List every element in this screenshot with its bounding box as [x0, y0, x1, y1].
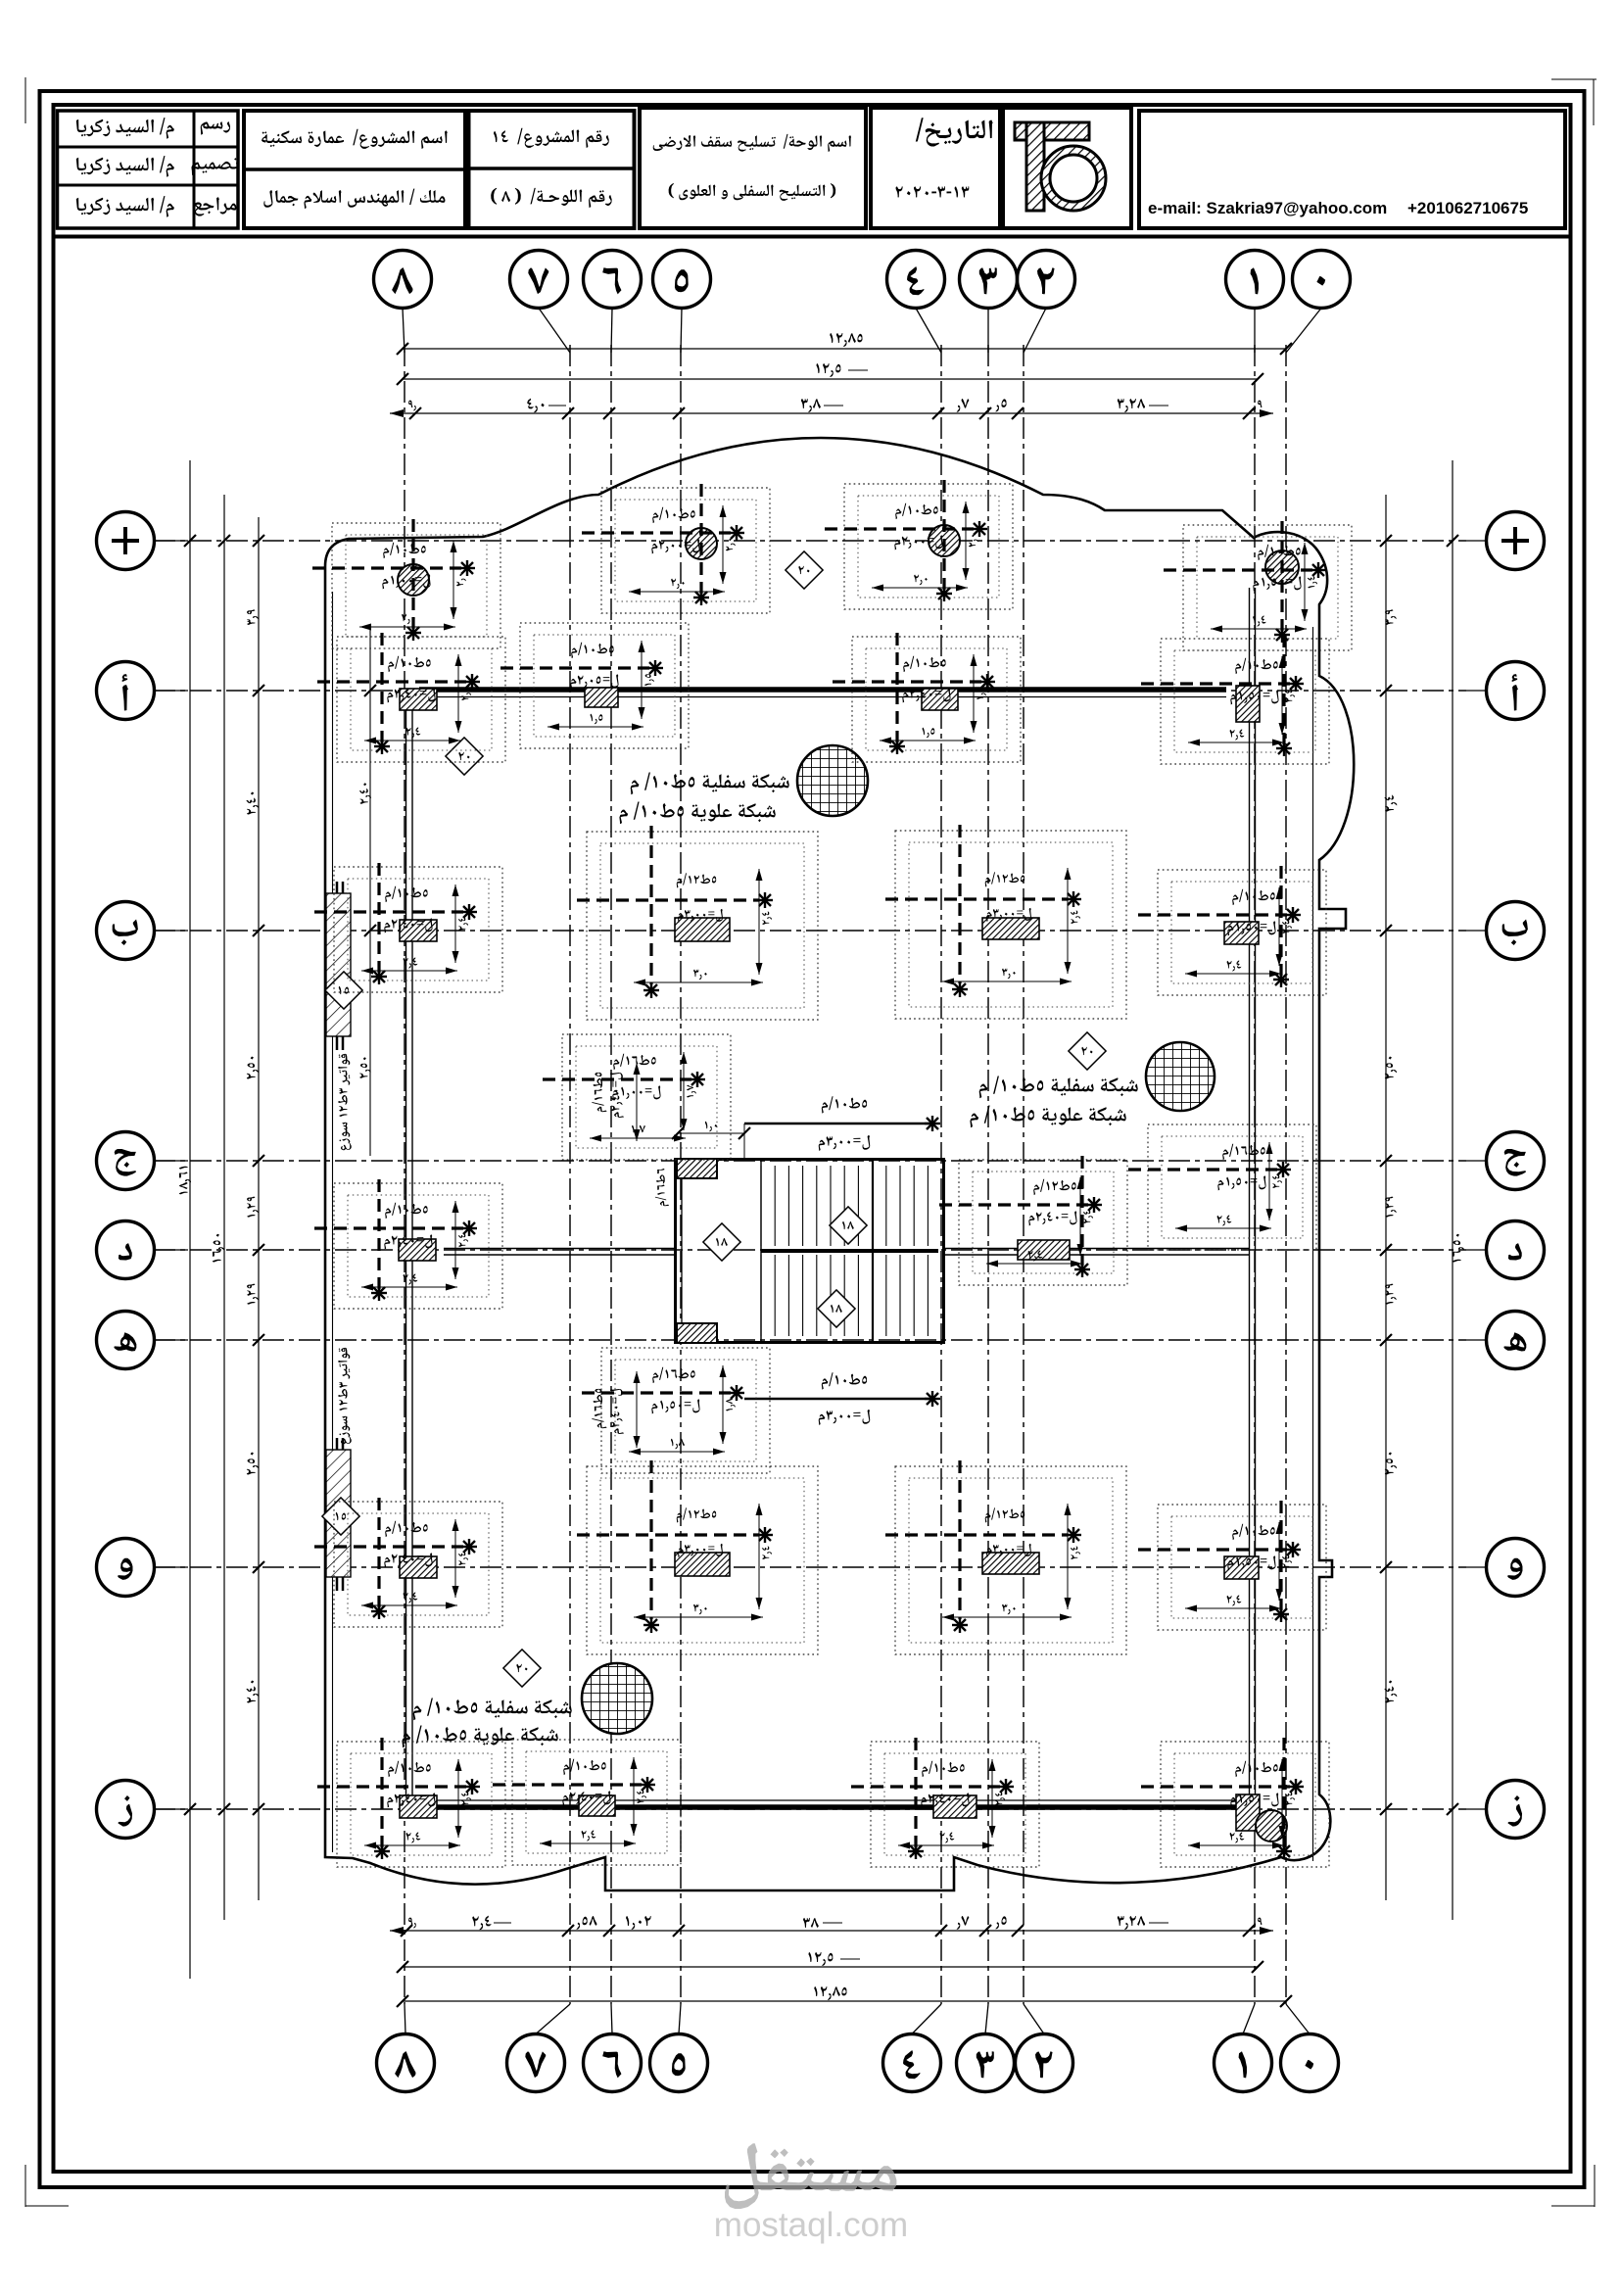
grid bubble ز right — [1466, 1781, 1545, 1839]
grid bubble ١ bottom — [1215, 2004, 1272, 2092]
wall on grid 8 (double line) — [405, 693, 407, 1807]
column F-8 — [400, 1556, 437, 1578]
grid bubble و right — [1466, 1539, 1545, 1597]
grid bubble ٠ bottom — [1281, 2004, 1339, 2092]
vertical grid centerline ٣ — [987, 345, 989, 2004]
grid bubble ٧ top — [510, 251, 571, 354]
grid bubble أ left — [97, 662, 189, 720]
mesh note bottom — [413, 1698, 572, 1721]
annotation cluster B interior left — [577, 826, 818, 1020]
vertical grid centerline ٥ — [680, 345, 682, 2004]
grid bubble ٣ top — [960, 251, 1018, 354]
annotation cluster +/6 — [582, 484, 770, 613]
annotation cluster A/6 — [500, 623, 689, 748]
title block: project number cell — [469, 111, 635, 228]
round column at + grid x6 — [686, 528, 717, 559]
svg-text:e-mail: Szakria97@yahoo.com: e-mail: Szakria97@yahoo.com — [1148, 199, 1387, 217]
grid bubble ب left — [97, 902, 189, 960]
building outline inner line left — [332, 592, 334, 1852]
grid bubble ٥ top — [653, 251, 711, 354]
horizontal grid centerline و — [154, 1566, 1466, 1568]
bottom overall dimension 12.5 — [397, 1952, 1263, 1973]
column Z-6/7 — [579, 1795, 615, 1816]
grid bubble ب right — [1466, 902, 1545, 960]
annotation cluster Z/1 — [1141, 1738, 1329, 1867]
grid bubble ٧ bottom — [507, 2004, 571, 2092]
stair wall rebar note — [655, 1169, 669, 1206]
corner mark top-right — [1551, 78, 1596, 80]
grid bubble أ right — [1466, 662, 1545, 720]
round column at + grid x4 — [929, 525, 960, 556]
title block: contact cell — [1139, 111, 1565, 228]
annotation cluster D right — [939, 1156, 1127, 1285]
corner mark top-left — [24, 77, 26, 123]
stair column bottom-left — [677, 1323, 717, 1343]
column F-1 — [1224, 1556, 1259, 1579]
annotation cluster B/1 — [1138, 866, 1326, 995]
vertical grid centerline ١ — [1254, 345, 1256, 2004]
vertical grid centerline ٨ — [404, 345, 405, 2004]
annotation cluster +/1 — [1164, 521, 1352, 650]
grid bubble د right — [1466, 1221, 1545, 1279]
annotation cluster F interior right — [885, 1460, 1126, 1654]
vertical grid centerline ٢ — [1023, 345, 1024, 2004]
horizontal grid centerline ب — [154, 930, 1466, 932]
annotation cluster below stair left — [582, 1348, 770, 1473]
column A-8 — [400, 689, 437, 710]
title block: date cell — [871, 108, 1000, 228]
grid bubble ه left — [97, 1312, 189, 1369]
grid bubble ٠ top — [1286, 251, 1351, 354]
annotation cluster +/8 — [312, 519, 500, 648]
diamond mark 15 upper — [325, 972, 362, 1009]
annotation cluster B interior right — [885, 825, 1126, 1019]
left overall dimension 18.61 — [179, 460, 196, 1979]
stair mid landing beam — [761, 1249, 938, 1253]
annotation cluster Z/8 — [317, 1738, 505, 1867]
mesh note top — [631, 773, 789, 795]
grid bubble ٨ top — [374, 251, 432, 354]
hatched wall band upper-left — [326, 893, 351, 1036]
grid bubble ز left — [97, 1781, 189, 1839]
column D-8 — [399, 1239, 436, 1261]
annotation cluster A/1 — [1141, 635, 1329, 764]
top overall dimension 12.85 — [397, 333, 1292, 355]
column B interior left — [675, 918, 730, 941]
column D interior right — [1018, 1240, 1070, 1260]
annotation cluster A/8 — [317, 633, 505, 762]
column B-1 — [1224, 922, 1259, 944]
round column bottom-right corner — [1256, 1810, 1287, 1842]
annotation cluster D/1 — [1128, 1124, 1316, 1250]
hatched opening circle right — [1146, 1042, 1215, 1111]
grid bubble ١ top — [1226, 251, 1284, 354]
column A-6/7 — [585, 688, 618, 707]
grid bubble ٨ bottom — [377, 2004, 435, 2092]
stair dimension above — [744, 1123, 935, 1125]
horizontal grid centerline + — [154, 540, 1466, 542]
annotation cluster above stair left — [543, 1034, 731, 1160]
grid bubble ٤ top — [887, 251, 945, 354]
diamond mark 18 — [830, 1207, 867, 1244]
annotation cluster B/8 — [314, 863, 502, 992]
right overall dimension 16.50 — [1447, 460, 1464, 1920]
corner mark bottom-right — [1594, 2165, 1596, 2207]
bottom bay dimension row — [390, 1916, 1273, 1937]
diamond mark 20 — [503, 1650, 541, 1687]
round column at + grid x8 — [398, 564, 429, 596]
annotation cluster F interior left — [577, 1460, 818, 1654]
hatched opening circle bottom — [582, 1663, 652, 1734]
column F interior right — [982, 1553, 1039, 1574]
hatched opening circle top — [797, 745, 868, 816]
vertical grid centerline ٤ — [940, 345, 942, 2004]
title block: sheet name cell — [640, 108, 866, 228]
title block: logo cell — [1003, 108, 1131, 228]
stairwell enclosure — [676, 1160, 944, 1343]
column F interior left — [675, 1553, 730, 1576]
stair dimension below — [744, 1398, 935, 1401]
right bay dimension column — [1380, 495, 1397, 1900]
logo TD monogram — [1015, 122, 1089, 211]
beam on grid Z — [421, 1804, 1244, 1810]
diamond mark 18 — [703, 1223, 740, 1261]
top bay dimension row — [390, 399, 1273, 419]
hatched wall band lower-left — [326, 1450, 351, 1577]
horizontal grid centerline ج — [154, 1160, 1466, 1162]
bottom overall dimension 12.85 — [397, 1986, 1292, 2007]
left inner bay dimension 2.4 — [359, 627, 376, 1156]
title block bottom separator line — [53, 235, 1571, 239]
annotation cluster Z/7 — [493, 1740, 681, 1865]
grid bubble ج right — [1466, 1132, 1545, 1190]
annotation cluster Z/4 — [851, 1738, 1039, 1867]
grid bubble و left — [97, 1539, 189, 1597]
beam on grid D left segment — [444, 1248, 675, 1250]
column Z-4 — [933, 1795, 977, 1818]
title block: project name cell — [244, 111, 465, 228]
stair dimension 9.0 left — [678, 1132, 744, 1134]
wall on grid 1 (double line) — [1249, 588, 1251, 1807]
grid bubble د left — [97, 1221, 189, 1279]
mostaql watermark — [714, 2143, 908, 2244]
mesh note right — [979, 1076, 1138, 1099]
beam on grid A — [419, 687, 1226, 693]
wall band label lower — [338, 1348, 352, 1444]
stair flight divider wall — [872, 1159, 874, 1343]
vertical grid centerline ٦ — [610, 345, 612, 2004]
left overall dimension 16.50 — [213, 495, 230, 1920]
annotation cluster D/8 — [314, 1179, 502, 1309]
grid bubble + right — [1466, 512, 1545, 570]
grid bubble ٥ bottom — [650, 2004, 708, 2092]
column B-8 — [400, 920, 437, 941]
vertical grid centerline ٠ — [1285, 345, 1287, 2004]
grid bubble ٦ bottom — [584, 2004, 642, 2092]
grid bubble ٢ bottom — [1016, 2004, 1073, 2092]
grid bubble ه right — [1466, 1312, 1545, 1369]
building outline inner line right — [1312, 627, 1314, 1861]
diamond mark 20 — [786, 551, 823, 589]
building outline wall — [325, 438, 1354, 1890]
stair side rebar note lower-left — [592, 1389, 606, 1428]
horizontal grid centerline د — [154, 1249, 1466, 1251]
grid bubble ٢ top — [1018, 251, 1075, 354]
grid bubble ٣ bottom — [957, 2004, 1015, 2092]
horizontal grid centerline ه — [154, 1339, 1466, 1341]
annotation cluster F/8 — [314, 1498, 502, 1627]
annotation cluster +/4 — [825, 480, 1013, 609]
grid bubble ٤ bottom — [883, 2004, 942, 2092]
annotation cluster A/4 — [833, 633, 1021, 762]
grid bubble ٦ top — [584, 251, 642, 354]
wall band label upper — [338, 1054, 352, 1150]
column A-4 — [922, 689, 958, 710]
column Z-1 — [1236, 1794, 1260, 1831]
horizontal grid centerline ز — [154, 1808, 1466, 1810]
round column top-right corner — [1265, 550, 1299, 584]
beam on grid D right segment — [943, 1248, 1250, 1250]
vertical grid centerline ٧ — [569, 345, 571, 2004]
stair column top-left — [677, 1159, 717, 1178]
title block: staff names table — [58, 111, 239, 228]
diamond mark 20 — [1069, 1032, 1106, 1070]
svg-text:+201062710675: +201062710675 — [1407, 199, 1528, 217]
stair side rebar note upper-left — [592, 1073, 606, 1112]
annotation cluster F/1 — [1138, 1501, 1326, 1630]
horizontal grid centerline أ — [154, 690, 1466, 692]
diamond mark 15 lower — [322, 1498, 359, 1535]
left bay dimension column — [247, 517, 265, 1900]
column B interior right — [982, 918, 1039, 939]
grid bubble + left — [97, 512, 189, 570]
svg-text:mostaql.com: mostaql.com — [714, 2206, 908, 2244]
diamond mark 20 — [446, 738, 483, 775]
corner mark bottom-left — [24, 2165, 26, 2207]
grid bubble ج left — [97, 1132, 189, 1190]
column A-1 — [1236, 686, 1260, 722]
diamond mark 18 — [818, 1290, 855, 1327]
top overall dimension 12.5 — [397, 363, 1263, 385]
column Z-8 — [400, 1795, 437, 1818]
